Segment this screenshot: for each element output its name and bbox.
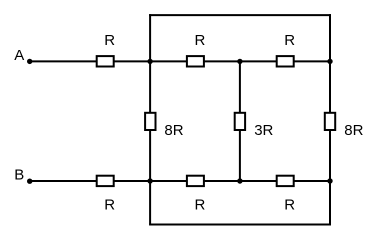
svg-text:R: R [194,32,205,49]
resistor R top-middle [187,56,204,66]
node junction top-right [327,59,332,64]
wire left vertical branch x=150 [149,14,151,224]
svg-text:R: R [284,196,295,213]
svg-text:R: R [194,196,205,213]
svg-text:8R: 8R [344,122,363,139]
svg-text:R: R [104,32,115,49]
wire middle vertical branch x=240 [239,61,241,181]
svg-text:8R: 8R [164,122,183,139]
resistor 3R middle vertical [235,113,245,130]
resistor R bottom-right [277,176,294,186]
node junction top-1 [147,59,152,64]
wire bottom bypass horizontal [149,224,331,226]
node terminal B dot [27,179,32,184]
wire top rail A row [30,60,331,62]
wire bottom rail B row [30,180,331,182]
svg-text:R: R [104,196,115,213]
svg-text:R: R [284,32,295,49]
node junction bottom-1 [147,178,152,183]
resistor 8R left vertical [145,113,155,130]
node terminal A dot [27,59,32,64]
svg-text:B: B [14,166,24,183]
resistor R top-right [277,56,294,66]
wire right vertical branch x=330 [329,14,331,225]
svg-text:A: A [14,47,24,64]
svg-text:3R: 3R [254,122,273,139]
node junction top-2 [237,59,242,64]
resistor R bottom-middle [187,176,204,186]
resistor R top-left [97,56,114,66]
resistor 8R right vertical [325,113,335,130]
wire top bypass horizontal [149,14,331,16]
node junction bottom-right [327,178,332,183]
resistor R bottom-left [97,176,114,186]
node junction bottom-2 [237,178,242,183]
